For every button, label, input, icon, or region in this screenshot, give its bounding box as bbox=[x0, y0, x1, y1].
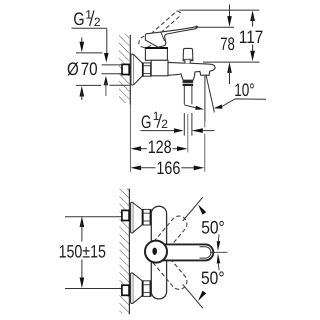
svg-text:2: 2 bbox=[94, 15, 101, 29]
svg-text:70: 70 bbox=[81, 59, 98, 79]
svg-text:G: G bbox=[73, 9, 84, 29]
svg-text:50°: 50° bbox=[201, 268, 225, 288]
svg-text:150±15: 150±15 bbox=[59, 241, 106, 261]
svg-text:166: 166 bbox=[156, 158, 180, 178]
svg-text:78: 78 bbox=[220, 34, 235, 54]
svg-text:G: G bbox=[141, 112, 151, 132]
svg-text:50°: 50° bbox=[201, 218, 225, 238]
svg-text:128: 128 bbox=[148, 137, 172, 157]
svg-text:Ø: Ø bbox=[67, 59, 79, 79]
svg-text:10°: 10° bbox=[234, 80, 255, 100]
svg-text:2: 2 bbox=[161, 117, 168, 131]
svg-text:117: 117 bbox=[239, 27, 263, 47]
